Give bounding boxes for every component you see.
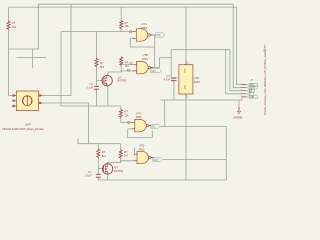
svg-text:C?: C? <box>167 74 171 78</box>
svg-text:C?: C? <box>90 82 94 86</box>
svg-text:10k: 10k <box>124 114 129 118</box>
svg-text:R?: R? <box>100 61 104 65</box>
svg-text:R?: R? <box>12 21 16 25</box>
svg-text:EN: EN <box>152 127 156 129</box>
svg-text:4093: 4093 <box>136 115 142 119</box>
svg-text:4.7uF: 4.7uF <box>164 77 171 81</box>
svg-text:GNDREF: GNDREF <box>233 118 243 120</box>
svg-text:2N7000: 2N7000 <box>114 169 124 173</box>
svg-text:PEC11R-4215F-S0024_Rotary_Enco: PEC11R-4215F-S0024_Rotary_Encoder <box>2 128 44 131</box>
svg-text:10k: 10k <box>125 24 130 28</box>
svg-text:4093: 4093 <box>139 147 145 151</box>
svg-text:CLK: CLK <box>151 71 156 73</box>
svg-text:C?: C? <box>88 170 92 174</box>
svg-text:2N7000: 2N7000 <box>117 79 127 83</box>
svg-text:OUT: OUT <box>153 160 158 162</box>
svg-text:U?D: U?D <box>139 144 144 148</box>
svg-text:R?: R? <box>102 150 106 154</box>
svg-text:1M: 1M <box>125 64 129 68</box>
svg-text:0.1uF: 0.1uF <box>86 86 93 90</box>
svg-text:15k: 15k <box>12 25 17 29</box>
svg-text:R?: R? <box>124 110 128 114</box>
svg-text:4093: 4093 <box>194 80 200 84</box>
svg-text:5k1: 5k1 <box>102 154 107 158</box>
svg-text:R?: R? <box>125 60 129 64</box>
svg-text:1M: 1M <box>124 154 128 158</box>
svg-text:Sounder_Prototype_Conn_PinHead: Sounder_Prototype_Conn_PinHeader_1x05_P2… <box>264 44 267 115</box>
svg-text:4093: 4093 <box>141 26 147 30</box>
svg-text:U?E: U?E <box>194 76 199 80</box>
svg-text:Q?: Q? <box>114 165 118 169</box>
svg-text:U?C: U?C <box>136 111 141 115</box>
svg-text:0.1uF: 0.1uF <box>85 174 92 178</box>
svg-text:U?A: U?A <box>142 22 147 26</box>
svg-text:4093: 4093 <box>142 57 148 61</box>
svg-text:GND: GND <box>249 97 254 99</box>
svg-text:R?: R? <box>124 150 128 154</box>
svg-text:5k1: 5k1 <box>100 65 105 69</box>
svg-text:DIS: DIS <box>157 35 161 37</box>
svg-text:SW?: SW? <box>25 122 31 126</box>
svg-text:U?B: U?B <box>143 53 148 57</box>
